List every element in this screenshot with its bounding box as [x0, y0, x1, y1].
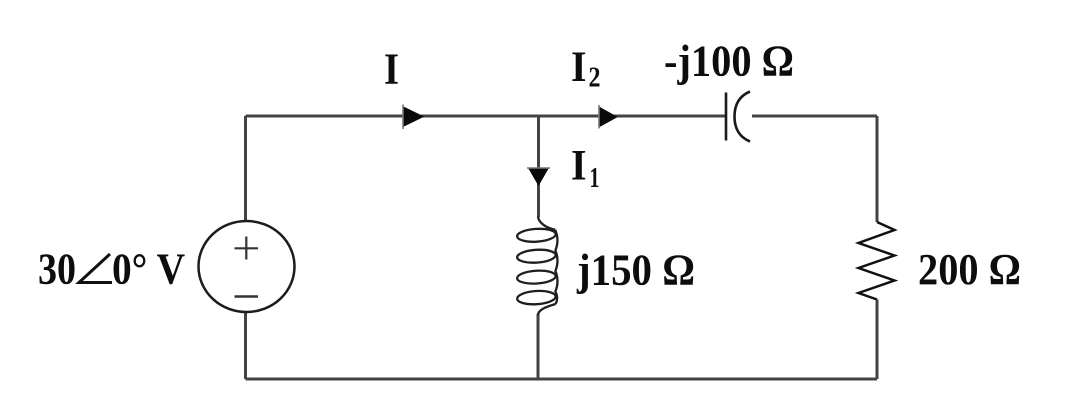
svg-text:j150 Ω: j150 Ω: [576, 246, 695, 295]
svg-text:0° V: 0° V: [112, 245, 185, 294]
svg-text:30: 30: [38, 245, 76, 294]
svg-text:2: 2: [589, 61, 601, 93]
svg-text:200 Ω: 200 Ω: [918, 245, 1021, 294]
svg-text:-j100 Ω: -j100 Ω: [664, 36, 794, 85]
svg-text:I: I: [571, 44, 587, 91]
svg-text:I: I: [571, 142, 587, 189]
svg-text:1: 1: [590, 162, 600, 194]
svg-text:I: I: [384, 44, 399, 93]
